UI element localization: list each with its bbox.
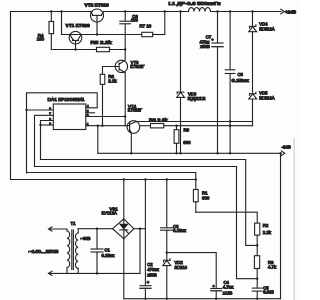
svg-text:КС510: КС510 (175, 265, 188, 270)
zener VD4 (249, 12, 275, 93)
resistor R6 (100, 67, 117, 126)
capacitor C1 (91, 229, 115, 274)
wire pin4 loop (27, 93, 98, 173)
svg-text:R7 10: R7 10 (140, 24, 152, 29)
svg-text:VT2 КТ819: VT2 КТ819 (85, 3, 109, 9)
capacitor C8 (225, 12, 249, 154)
wire pin8 (27, 109, 54, 111)
transistor VT3 (103, 60, 146, 73)
wire ac2 jog (139, 229, 141, 274)
svg-text:КУ112А: КУ112А (102, 211, 117, 216)
svg-text:180: 180 (37, 36, 45, 41)
svg-text:КС512А: КС512А (259, 96, 274, 101)
wire top rail left segment (11, 11, 91, 13)
svg-text:R2: R2 (263, 223, 269, 228)
transistor VT4 (127, 104, 143, 153)
wire pin6 nest (41, 121, 54, 160)
svg-text:С8: С8 (238, 72, 244, 77)
wire mid rail (98, 152, 282, 154)
svg-text:+24В: +24В (285, 10, 297, 15)
wire bottom rail (124, 298, 281, 300)
resistor R3 (254, 256, 277, 288)
thyristor VS1 (102, 206, 134, 239)
wire secondary bottom row (68, 272, 141, 274)
svg-text:КТ315Г: КТ315Г (130, 64, 145, 69)
wire VT3 emitter column (124, 73, 126, 126)
zener VD5 (249, 91, 275, 126)
svg-text:-24В: -24В (282, 144, 291, 149)
svg-text:R5 2.2k: R5 2.2k (91, 40, 113, 45)
svg-text:680: 680 (183, 140, 191, 145)
svg-text:~30В: ~30В (81, 236, 91, 241)
svg-text:Т1: Т1 (71, 221, 77, 226)
wire VT4 collector long line (136, 121, 252, 123)
svg-text:2.2k: 2.2k (263, 230, 272, 235)
wire VS1 anode up (123, 180, 125, 219)
capacitor C3 (161, 180, 187, 253)
wire nest line5 bridge plus (11, 179, 196, 181)
wire VT1 collector to R7 row (81, 34, 142, 36)
svg-text:L1 ДР-0.6 500мкГн: L1 ДР-0.6 500мкГн (169, 1, 222, 6)
wire pin7 nest (35, 115, 54, 166)
node output minus arrow (281, 144, 290, 155)
svg-text:300: 300 (202, 196, 210, 201)
transformer T1 (29, 221, 91, 276)
wire pin2 nest (41, 124, 54, 126)
wire bridge right vertex (134, 228, 146, 230)
svg-text:х12В: х12В (223, 291, 233, 296)
capacitor C5 (252, 286, 274, 299)
svg-text:R8 2.2k: R8 2.2k (149, 117, 168, 122)
inductor L1 (169, 1, 222, 11)
svg-text:х50В: х50В (147, 273, 157, 278)
svg-text:R9: R9 (184, 127, 190, 132)
wire pin5 stub (86, 112, 95, 114)
capacitor C2 (140, 180, 159, 299)
wire nest line2 (41, 160, 258, 246)
wire top rail right segment (211, 11, 281, 13)
resistor R1 (193, 190, 209, 213)
transistor VT1 (62, 23, 90, 50)
wire VT1 base column from top rail (61, 12, 63, 35)
svg-text:КД212: КД212 (188, 96, 206, 101)
wire pin1 ground line (86, 125, 130, 127)
wire R4 bottom row to R5 (51, 49, 96, 51)
wire left rail (10, 12, 12, 180)
svg-text:0.15мк: 0.15мк (173, 228, 186, 233)
wire C3 VD2 node to C4 (167, 253, 216, 289)
diode VD3 (177, 12, 207, 154)
wire secondary top to bridge (78, 228, 112, 230)
svg-text:0.15мк: 0.15мк (232, 78, 249, 83)
svg-text:+: + (211, 37, 214, 42)
wire R1 bottom to R2 top (196, 212, 257, 223)
capacitor C6 (120, 12, 139, 60)
capacitor C4 (211, 280, 234, 299)
wire nest line3 (35, 167, 258, 279)
svg-text:0.015: 0.015 (263, 290, 274, 295)
svg-text:х50В: х50В (200, 44, 210, 49)
wire pin3 (86, 116, 125, 118)
resistor R8 (140, 117, 253, 128)
svg-text:4.7мк: 4.7мк (223, 285, 234, 290)
transistor VT2 (85, 3, 109, 35)
resistor R9 (174, 126, 191, 154)
timer IC DA1 (48, 97, 89, 129)
wire nest line4 R1 feed (27, 173, 196, 190)
svg-text:VT1 КТ626: VT1 КТ626 (66, 23, 90, 29)
wire right column down (280, 153, 282, 298)
resistor R7 (140, 12, 165, 37)
svg-text:+: + (147, 280, 150, 285)
svg-text:КТ315Г: КТ315Г (128, 108, 143, 113)
node output plus arrow (281, 9, 297, 14)
svg-text:VD2: VD2 (175, 260, 184, 265)
wire top rail mid segment (104, 11, 189, 13)
wire page edge artifact (293, 139, 295, 300)
svg-text:КС512А: КС512А (259, 26, 274, 31)
wire VS1 cathode down (123, 239, 125, 299)
svg-text:~140...250В: ~140...250В (29, 249, 59, 254)
resistor R2 (255, 223, 272, 256)
zener VD2 (163, 253, 188, 299)
svg-text:100: 100 (131, 18, 139, 23)
svg-text:4.7k: 4.7k (268, 265, 277, 270)
resistor R5 (91, 40, 126, 52)
svg-text:2.2k: 2.2k (108, 79, 117, 84)
svg-text:DA1 КР1006ВИ1: DA1 КР1006ВИ1 (48, 97, 86, 102)
svg-text:470мк: 470мк (147, 267, 159, 272)
svg-text:0.15мк: 0.15мк (102, 253, 115, 258)
capacitor C7 (200, 12, 224, 154)
resistor R4 (37, 12, 54, 50)
